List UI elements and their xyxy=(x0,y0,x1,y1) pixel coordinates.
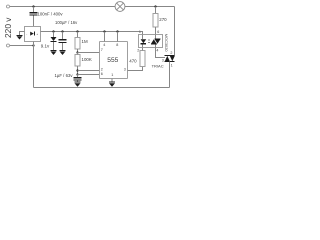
ground (C3) xyxy=(75,81,81,83)
wire triac MT1 to bottom rail xyxy=(169,62,171,88)
ground (bridge minus) xyxy=(17,34,23,36)
opto phototriac xyxy=(155,35,157,48)
wire bridge bottom to bottom rail xyxy=(33,42,35,88)
svg-text:1M: 1M xyxy=(82,39,88,44)
pin 8 stub xyxy=(117,32,119,42)
svg-text:MOC3020: MOC3020 xyxy=(164,34,169,53)
svg-text:100µF / 16v: 100µF / 16v xyxy=(55,20,78,25)
lamp LA1 xyxy=(115,2,125,12)
svg-text:3: 3 xyxy=(124,67,126,71)
svg-text:+: + xyxy=(36,32,38,36)
node K (pin6 junction) xyxy=(76,73,78,75)
svg-text:270: 270 xyxy=(159,17,167,22)
svg-text:555: 555 xyxy=(107,57,118,64)
svg-text:-: - xyxy=(26,32,27,36)
svg-text:3: 3 xyxy=(162,58,164,62)
svg-text:TRIAC: TRIAC xyxy=(152,63,164,68)
node D (zener tap) xyxy=(52,30,54,32)
svg-text:220 v: 220 v xyxy=(3,17,13,38)
node I (pin7 junction) xyxy=(76,51,78,53)
svg-text:6: 6 xyxy=(157,30,159,34)
background xyxy=(0,0,178,100)
IC U1 555 timer xyxy=(100,42,128,79)
svg-text:1: 1 xyxy=(139,30,141,34)
wire neutral to bridge xyxy=(10,45,34,47)
terminal T1 (line input top) xyxy=(7,5,10,8)
node B (R4 tap) xyxy=(154,5,156,7)
capacitor C2 100uF/16v xyxy=(62,32,64,40)
terminal T2 (neutral input) xyxy=(7,44,10,47)
capacitor C1 100nF/400v xyxy=(33,7,35,12)
wire pin3 output to R3 xyxy=(128,67,143,71)
node H (pin8 tap) xyxy=(116,30,118,32)
ground (zener) xyxy=(51,49,57,51)
svg-text:9.1v: 9.1v xyxy=(41,44,50,49)
wire right edge down to triac MT2 xyxy=(174,7,176,56)
svg-text:2: 2 xyxy=(101,67,103,71)
ground (555 pin1) xyxy=(109,81,115,83)
resistor R2 100K xyxy=(75,55,80,67)
node A (C1 tap) xyxy=(32,5,34,7)
pin 1 ground stub xyxy=(111,79,113,82)
svg-text:2: 2 xyxy=(170,51,172,55)
ground (C2) xyxy=(60,49,66,51)
svg-text:470: 470 xyxy=(129,58,137,63)
triac TR1 xyxy=(165,55,175,57)
node E (C2 tap) xyxy=(61,30,63,32)
optocoupler U2 MOC3020 xyxy=(139,35,163,48)
svg-text:6: 6 xyxy=(101,72,103,76)
wire pin7 xyxy=(78,52,100,54)
wire top rail right xyxy=(125,6,175,8)
svg-text:1: 1 xyxy=(171,63,173,67)
svg-text:100nF / 400v: 100nF / 400v xyxy=(38,11,64,16)
node F (R1 tap) xyxy=(76,30,78,32)
svg-text:100K: 100K xyxy=(82,57,92,62)
node G (pin4 tap) xyxy=(103,30,105,32)
wire pin6 xyxy=(78,74,100,76)
wire bottom rail xyxy=(34,87,170,89)
node J (pin2 junction) xyxy=(76,69,78,71)
svg-text:7: 7 xyxy=(101,48,103,52)
svg-text:1: 1 xyxy=(111,73,113,77)
node C (bridge AC / neutral) xyxy=(32,44,34,46)
resistor R4 270 xyxy=(155,7,157,14)
resistor R1 1M xyxy=(77,32,79,38)
wire bridge minus to ground xyxy=(20,32,25,36)
resistor R3 470 xyxy=(140,51,145,67)
svg-text:4: 4 xyxy=(103,43,105,47)
capacitor C3 1uF/63v xyxy=(77,75,79,78)
bridge rectifier BR1 xyxy=(25,27,41,42)
zener diode ZD1 9.1v xyxy=(53,32,55,38)
wire pin2 xyxy=(78,70,100,72)
svg-text:1µF / 63v: 1µF / 63v xyxy=(55,73,74,78)
wire opto pin4 to triac gate xyxy=(156,48,166,58)
svg-text:2: 2 xyxy=(137,48,139,52)
wire Vcc rail xyxy=(41,32,143,35)
opto LED xyxy=(142,35,144,48)
wire top rail left xyxy=(10,6,115,8)
svg-text:4: 4 xyxy=(156,48,158,52)
pin 4 stub xyxy=(104,32,106,42)
svg-text:8: 8 xyxy=(116,43,118,47)
